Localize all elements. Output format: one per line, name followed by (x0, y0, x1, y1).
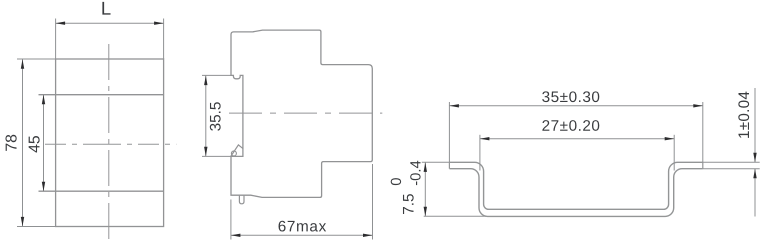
arrow 7.5 bottom (424, 207, 427, 217)
arrow 78 bottom (21, 217, 24, 227)
DIN clip spring circle (231, 151, 236, 156)
arrow 35.5 top (204, 76, 207, 86)
arrow 1 up (753, 169, 756, 179)
arrow L right (154, 22, 164, 25)
DIN clip wedge (231, 145, 243, 156)
svg-text:-0.4: -0.4 (409, 160, 425, 186)
centerline horizontal left view (45, 143, 176, 145)
body rectangle front view (56, 59, 164, 227)
svg-text:27±0.20: 27±0.20 (542, 118, 601, 135)
arrow 45 bottom (42, 182, 45, 192)
dimension line 67max (231, 234, 373, 236)
dimension line 45 (43, 95, 45, 192)
arrow 1 down (753, 153, 756, 163)
arrow 67max left (231, 234, 241, 237)
arrow 35 right (693, 104, 703, 107)
dimension leader 1 above (754, 88, 756, 162)
svg-text:7.5: 7.5 (400, 194, 417, 215)
panel line upper (39, 94, 164, 96)
rail left end cap (448, 162, 450, 168)
extension lines dim 35.5 (202, 75, 231, 156)
extension lines dim 7.5 (422, 162, 486, 216)
extension lines dim 78 (17, 58, 56, 60)
arrow 7.5 top (424, 162, 427, 172)
rail right end cap (702, 162, 704, 168)
svg-text:78: 78 (4, 134, 21, 152)
DIN clip release tab (239, 196, 244, 204)
arrow 35 left (449, 104, 459, 107)
svg-text:L: L (101, 0, 111, 19)
svg-text:35.5: 35.5 (208, 102, 225, 132)
arrow 27 left (480, 137, 490, 140)
arrow 67max right (363, 234, 373, 237)
dimension line 35.5 (205, 76, 207, 157)
extension lines dim 35 (449, 102, 702, 162)
svg-text:45: 45 (27, 135, 44, 153)
arrow 35.5 bottom (204, 147, 207, 157)
dimension leader 1 below (754, 169, 756, 217)
arrow L left (56, 22, 66, 25)
extension lines dim 27 (480, 135, 674, 171)
arrow 27 right (665, 137, 675, 140)
centerline side view (229, 112, 382, 114)
dimension line 27 (480, 138, 674, 140)
rail bottom/outer surface (449, 169, 702, 217)
svg-text:1±0.04: 1±0.04 (736, 91, 753, 139)
extension lines dim L (17, 19, 164, 227)
dimension line 7.5 (424, 162, 426, 216)
side view outline (231, 30, 372, 197)
centerline vertical left view (108, 44, 110, 240)
arrow 45 top (42, 95, 45, 105)
svg-text:0: 0 (389, 178, 405, 186)
panel line lower (39, 190, 164, 192)
arrow 78 top (21, 59, 24, 68)
dimension line 78 (22, 59, 24, 226)
svg-text:67max: 67max (278, 218, 327, 235)
extension lines dim 67max (231, 164, 373, 240)
extension lines dim 1 (703, 162, 760, 168)
dimension line 35 (449, 105, 702, 107)
rail top/inner surface (449, 162, 702, 209)
dimension line L (56, 22, 164, 24)
svg-text:35±0.30: 35±0.30 (542, 89, 601, 106)
